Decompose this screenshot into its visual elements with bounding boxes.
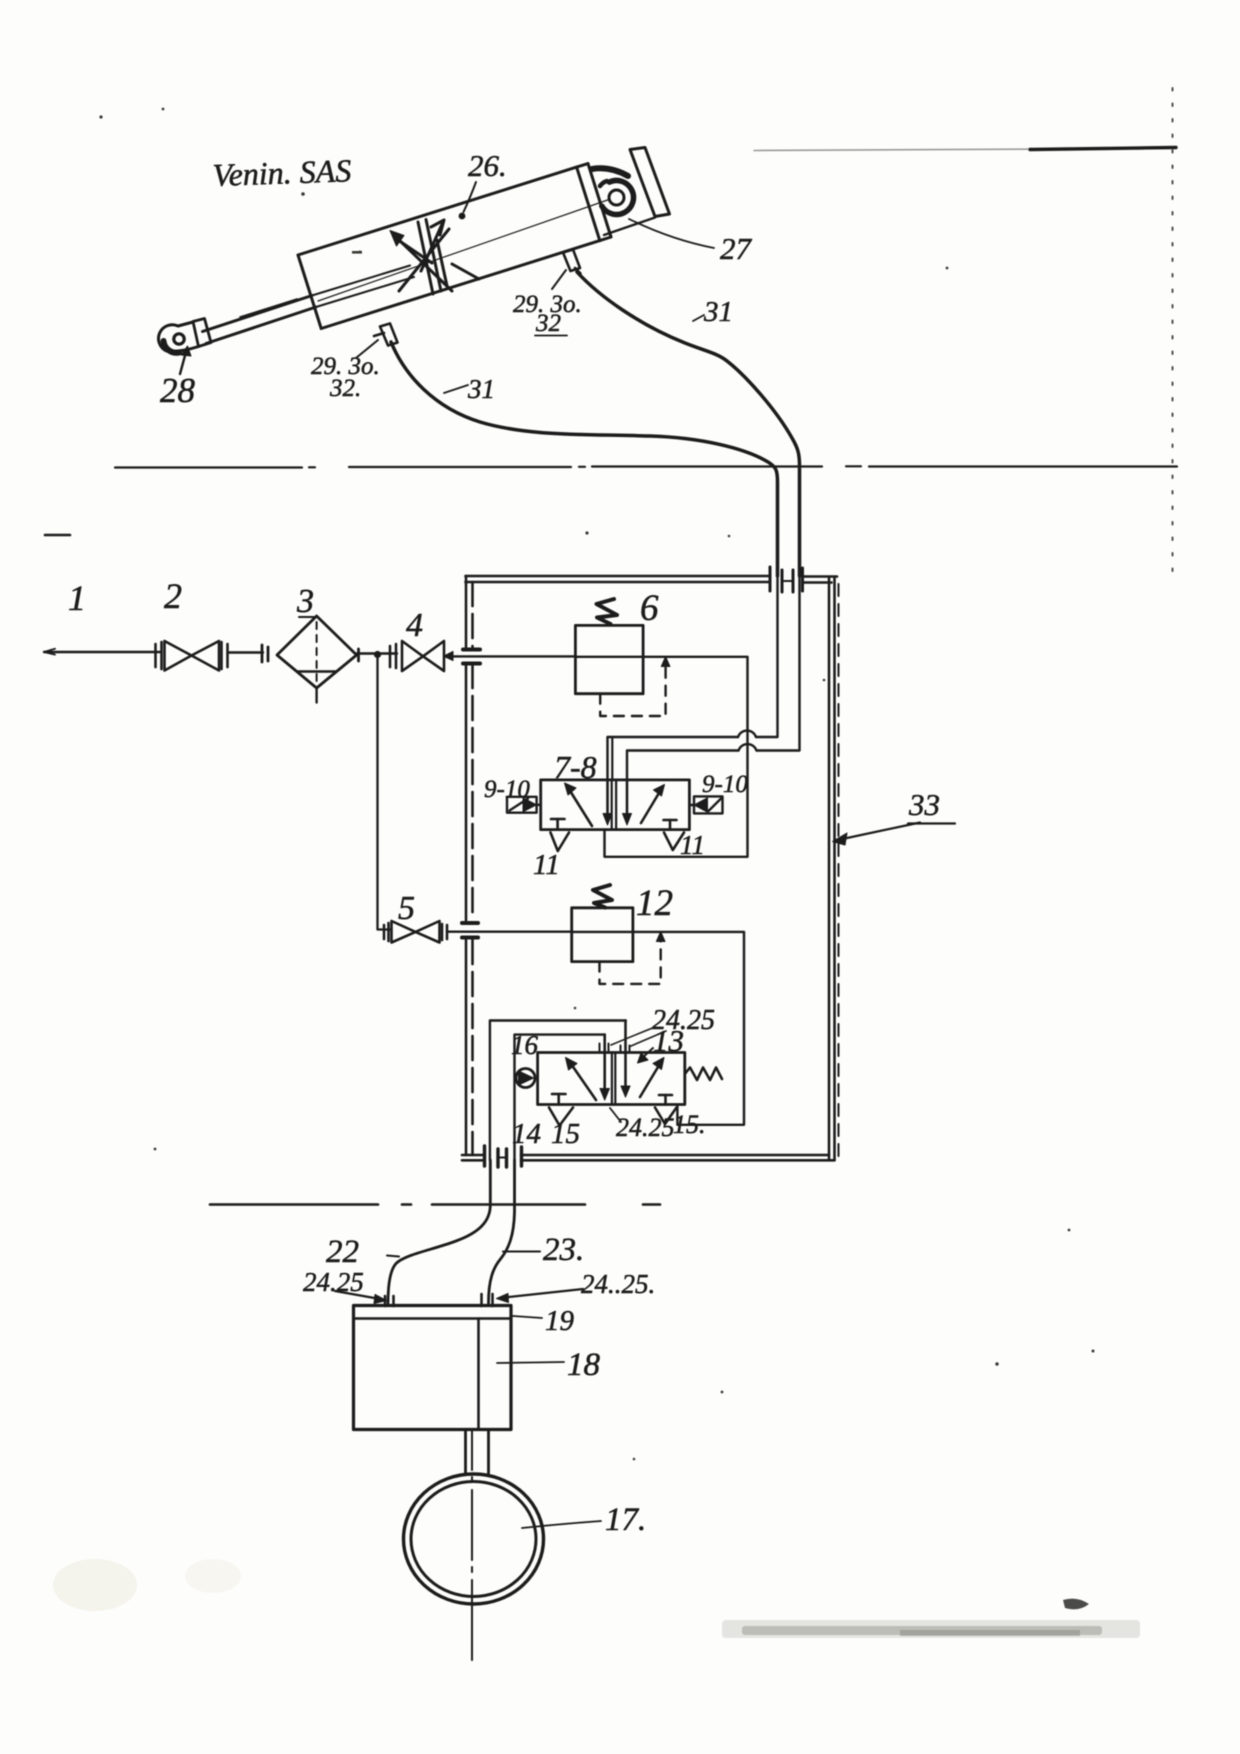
valve 13 down arrow left [603, 1035, 606, 1092]
valve 13 top port ticks [600, 1044, 630, 1053]
svg-text:24..25.: 24..25. [581, 1269, 655, 1299]
svg-text:11: 11 [533, 849, 560, 881]
svg-text:22: 22 [326, 1234, 359, 1270]
wire valve 13 output A to left [490, 1021, 626, 1161]
frame line top right [754, 149, 1060, 151]
cylinder end cap band [577, 164, 611, 241]
svg-text:4: 4 [406, 607, 423, 644]
directional valve 7-8 body [541, 780, 690, 830]
svg-text:Venin. SAS: Venin. SAS [212, 152, 352, 193]
junction node [374, 651, 381, 658]
pivot bracket bottom [604, 218, 655, 236]
scan smudge bottom left [53, 1559, 137, 1611]
valve 7-8 down arrow left [606, 780, 609, 818]
svg-text:26.: 26. [468, 148, 507, 183]
leader dot 26 [459, 213, 466, 220]
svg-text:24.25: 24.25 [616, 1113, 675, 1142]
rod highlight line [240, 299, 297, 317]
svg-text:17.: 17. [605, 1502, 646, 1538]
valve 13 left compartment arrow [569, 1061, 596, 1100]
exhaust port 15 left [549, 1094, 573, 1126]
hose 31 left [391, 342, 778, 576]
wire valve4 to box [444, 655, 576, 657]
wire supply down to valve 7-8 [605, 658, 748, 857]
svg-text:3: 3 [296, 583, 314, 620]
exhaust port 11 left [551, 819, 570, 851]
svg-text:9-10: 9-10 [484, 776, 530, 803]
svg-text:19: 19 [545, 1305, 575, 1337]
roller wheel 17 [404, 1474, 544, 1604]
cylinder 18 port ticks [385, 1294, 493, 1306]
svg-text:18: 18 [567, 1347, 601, 1383]
svg-text:32.: 32. [329, 375, 361, 402]
pilot 9-10 left [507, 797, 541, 813]
pressure regulator 12 [572, 908, 633, 962]
bulkhead fitting left lower (line 5) [462, 923, 478, 938]
svg-text:15.: 15. [673, 1110, 706, 1139]
svg-text:28: 28 [160, 371, 196, 410]
wire regulator 6 output [575, 656, 747, 658]
svg-text:23.: 23. [543, 1232, 584, 1268]
shutoff valve 5 [384, 921, 447, 943]
piston rod 18 [466, 1430, 489, 1474]
enclosure box 33 right border [829, 578, 839, 1160]
svg-text:31: 31 [703, 296, 733, 328]
supply line 1 [44, 651, 160, 653]
directional valve 13 body [538, 1053, 685, 1105]
svg-text:27: 27 [720, 231, 753, 266]
regulator 12 spring adjuster [593, 885, 612, 908]
filter 3 [262, 616, 359, 703]
regulator 6 pilot dashed line [600, 662, 665, 716]
datum dash-dot line lower [210, 1203, 660, 1206]
enclosure box 33 top border [466, 576, 838, 583]
hose 22 [388, 1160, 490, 1303]
datum dash-dot line upper [115, 466, 1177, 467]
svg-text:24.25: 24.25 [652, 1005, 715, 1036]
wire valve5 to box [447, 931, 573, 933]
svg-text:11: 11 [680, 830, 705, 860]
rod clevis eye 28 [159, 319, 211, 353]
arrowhead on line into valve 4 [444, 652, 454, 661]
arrowhead solid up-left [390, 231, 404, 247]
regulator 12 pilot dashed line [600, 937, 661, 984]
svg-text:1: 1 [68, 578, 86, 618]
wire hose B inside box [757, 578, 800, 751]
pressure regulator 6 [575, 625, 643, 693]
trunnion pivot 27 [609, 190, 624, 205]
valve 13 right compartment arrow [640, 1062, 661, 1097]
pilot 16 [516, 1069, 535, 1088]
valve 13 down arrow right [624, 1021, 627, 1091]
svg-text:7-8: 7-8 [554, 749, 597, 785]
svg-text:33: 33 [908, 787, 940, 822]
svg-text:6: 6 [640, 588, 659, 629]
wire valve 13 output B and pilot line [515, 1035, 605, 1160]
rear mounting plate [630, 148, 670, 217]
valve 13 return spring [685, 1068, 722, 1081]
exhaust port 11 right [664, 820, 685, 850]
svg-text:9-10: 9-10 [702, 771, 748, 798]
pilot 9-10 right [689, 796, 722, 813]
svg-text:2: 2 [164, 576, 182, 616]
wheel centerline [471, 1430, 473, 1660]
cylinder 26 body [298, 167, 600, 328]
bulkhead fitting left upper (line 4) [463, 650, 480, 664]
port fitting upper 29-30-32 [563, 250, 581, 274]
exhaust port 15 right [655, 1095, 677, 1124]
enclosure box 33 left border [466, 576, 473, 1155]
wire regulator 12 output down to valve 13 [572, 932, 744, 1125]
svg-text:31: 31 [467, 374, 495, 404]
svg-text:32: 32 [535, 310, 561, 337]
scan smudge bottom right [722, 1599, 1140, 1638]
valve 7-8 down arrow right [626, 780, 629, 818]
rod inside body [312, 266, 414, 308]
port fitting lower 29-30-32 [374, 324, 398, 346]
short dash mark left [45, 534, 70, 537]
cylinder 18 body [354, 1306, 512, 1430]
shutoff valve 2 [156, 641, 228, 671]
svg-text:5: 5 [398, 890, 415, 927]
regulator 6 spring adjuster [597, 599, 618, 624]
frame vertical dotted right [1172, 88, 1174, 580]
wire filter3 to valve4 [357, 652, 397, 654]
bulkhead fitting top (hoses entry) [770, 567, 803, 592]
cylinder 18 inner line [477, 1319, 480, 1430]
piston and valve mechanism [396, 220, 479, 295]
valve 7-8 left compartment arrow [567, 786, 592, 826]
svg-text:15: 15 [551, 1118, 580, 1150]
piston rod [203, 296, 317, 344]
branch wire down to valve 5 [378, 655, 392, 930]
valve 7-8 right compartment arrow [641, 788, 662, 823]
wire hose A inside box [756, 578, 778, 737]
cylinder 18 cap 19 [354, 1317, 512, 1320]
hose 31 right [577, 272, 800, 576]
scan noise specks [99, 108, 1094, 1461]
pivot bracket top [592, 168, 628, 176]
wire valve2 to filter3 [228, 651, 263, 653]
svg-text:14: 14 [512, 1118, 541, 1150]
enclosure box 33 bottom border [462, 1155, 835, 1160]
hose 23 [489, 1160, 515, 1303]
svg-text:24.25: 24.25 [303, 1267, 364, 1297]
shutoff valve 4 [390, 641, 444, 671]
bulkhead fitting bottom (hoses 22-23 exit) [485, 1146, 522, 1167]
svg-text:12: 12 [636, 883, 673, 924]
cylinder axis line [318, 200, 609, 302]
